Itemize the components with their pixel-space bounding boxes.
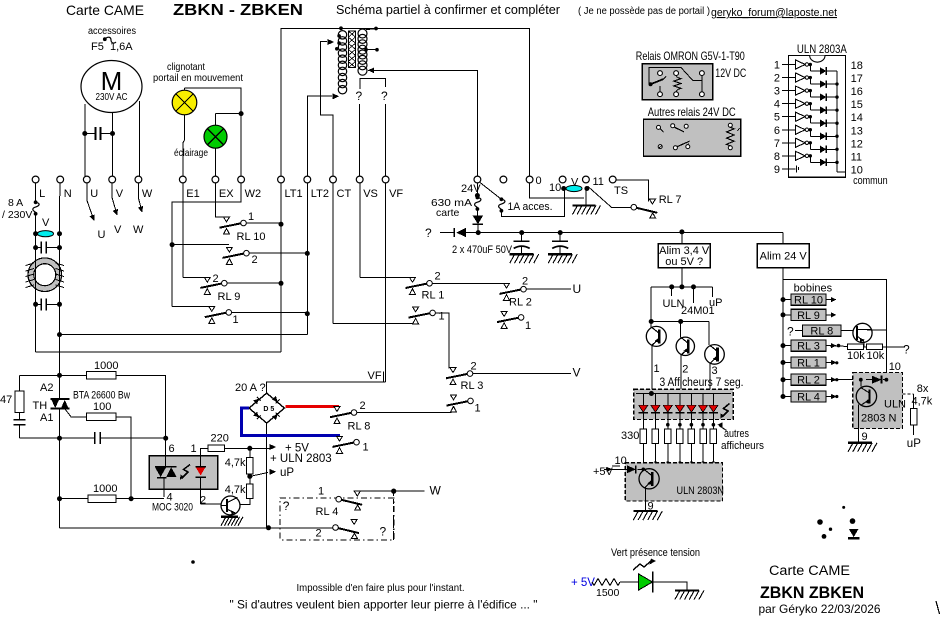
relay contact RL10-1	[220, 223, 241, 227]
svg-text:L: L	[39, 188, 45, 200]
wire resistor 4 down	[679, 444, 681, 464]
svg-text:13: 13	[851, 125, 863, 137]
wire bridge bottom to bus	[266, 423, 268, 528]
svg-text:12: 12	[851, 138, 863, 150]
terminal TS	[609, 176, 616, 183]
svg-text:2: 2	[252, 254, 258, 266]
svg-text:?: ?	[283, 499, 290, 513]
svg-text:W: W	[142, 188, 153, 200]
IC ULN 2803A outline	[788, 56, 845, 178]
svg-text:47: 47	[0, 394, 12, 406]
wire blue bridge minus	[241, 408, 340, 435]
svg-text:RL 9: RL 9	[797, 310, 820, 322]
svg-text:10: 10	[615, 455, 627, 467]
relay2 coil	[728, 123, 732, 127]
transformer primary taps	[337, 34, 341, 38]
MOC triac	[155, 466, 166, 468]
svg-text:12V DC: 12V DC	[715, 66, 746, 80]
wire resistor 5 down	[690, 444, 692, 464]
svg-text:1: 1	[654, 363, 660, 375]
LED display segment 3	[667, 394, 669, 406]
svg-text:?: ?	[903, 343, 910, 357]
svg-text:U: U	[98, 229, 106, 241]
svg-text:20 A ?: 20 A ?	[235, 382, 266, 394]
svg-text:2: 2	[682, 364, 688, 376]
relay1 pins	[658, 71, 663, 76]
varistor 10-11	[566, 185, 582, 191]
svg-text:accessoires: accessoires	[88, 26, 136, 37]
decor diode mark	[849, 529, 859, 537]
svg-text:15: 15	[851, 99, 863, 111]
relay coil RL 4	[781, 394, 786, 399]
wire Alim24V down	[782, 268, 784, 280]
stub uP	[712, 287, 714, 297]
terminal 11	[583, 176, 590, 183]
transformer core	[348, 31, 355, 68]
ULN2803A inverter 1	[788, 64, 795, 66]
wire CT to RL1-1	[332, 183, 334, 323]
svg-text:" Si d'autres veulent bien app: " Si d'autres veulent bien apporter leur…	[230, 598, 538, 612]
svg-text:RL 9: RL 9	[218, 291, 241, 303]
resistor 330 #2	[652, 429, 659, 444]
relay contact RL4-2	[333, 525, 339, 531]
svg-text:1: 1	[191, 443, 197, 455]
stub 24M01	[693, 287, 695, 303]
wire RL3-2 to V	[473, 373, 571, 375]
svg-text:0: 0	[536, 175, 542, 187]
svg-text:1: 1	[439, 311, 445, 323]
svg-text:RL 8: RL 8	[348, 421, 371, 433]
svg-text:1,6A: 1,6A	[110, 41, 133, 53]
arrow autres afficheurs	[719, 426, 727, 431]
svg-text:N: N	[64, 188, 72, 200]
wire green lamp bottom to EX	[215, 148, 217, 176]
ULN2803A inverter 6	[788, 129, 795, 131]
svg-text:2: 2	[435, 271, 441, 283]
wire LED 3 to resistor	[667, 420, 669, 430]
terminal W	[135, 176, 142, 183]
box 3 afficheurs	[634, 389, 733, 419]
relay contact RL2-1	[497, 318, 518, 322]
wire N down to triac	[59, 335, 61, 376]
terminal E1	[179, 176, 186, 183]
wire yellow lamp top to W2	[184, 88, 186, 90]
terminal L	[32, 176, 39, 183]
wire 1000 to MOC pin6 column	[116, 375, 166, 438]
resistor 330 #1	[640, 429, 647, 444]
svg-text:V: V	[571, 177, 579, 189]
svg-text:bobines: bobines	[794, 283, 833, 295]
MOC pin 4	[163, 478, 165, 498]
svg-text:portail en mouvement: portail en mouvement	[153, 72, 243, 84]
ULN2803A inverter 7	[788, 142, 795, 144]
relay contact RL2-2	[500, 290, 521, 294]
lightning arrow LED	[633, 561, 651, 570]
svg-text:V: V	[116, 188, 124, 200]
mystery winding bracket	[360, 79, 386, 89]
wire L through choke	[35, 258, 37, 300]
box relay OMRON 12V	[642, 64, 712, 100]
stub ULN	[671, 287, 673, 296]
relay coil RL 1	[781, 360, 786, 365]
resistor 330 #6	[700, 429, 707, 444]
svg-text:RL 4: RL 4	[797, 392, 820, 404]
relay contact RL10-2	[172, 244, 229, 246]
wire LED 5 to resistor	[690, 420, 692, 430]
svg-text:TH: TH	[33, 400, 48, 412]
motor M 230V AC	[81, 61, 142, 113]
wire yellow lamp bottom to E1	[184, 115, 186, 140]
svg-text:( Je ne possède pas de portail: ( Je ne possède pas de portail )	[578, 6, 710, 17]
svg-text:10: 10	[889, 361, 901, 373]
wire RL2-2 to U	[526, 288, 571, 290]
svg-text:1: 1	[525, 320, 531, 332]
svg-text:Vert présence tension: Vert présence tension	[611, 547, 700, 559]
svg-text:ou 5V ?: ou 5V ?	[665, 256, 703, 268]
svg-text:2 x 470uF 50V: 2 x 470uF 50V	[452, 244, 513, 256]
svg-text:17: 17	[851, 73, 863, 85]
wire N to LT2 rail	[59, 310, 61, 335]
terminal U	[83, 176, 90, 183]
svg-text:F5: F5	[91, 41, 104, 53]
relay contact RL8-2	[330, 413, 351, 417]
LED display segment 5	[690, 394, 692, 406]
terminal 0	[526, 176, 533, 183]
relay coil RL 10	[781, 297, 786, 302]
decor mark right edge	[936, 601, 940, 614]
resistor 330 #4	[677, 429, 684, 444]
resistor 10k right	[863, 346, 866, 348]
svg-text:?: ?	[356, 89, 363, 103]
wire RL9-1 to LT2	[232, 311, 308, 313]
wire transistor emitter ground	[230, 514, 232, 517]
svg-text:4,7k: 4,7k	[225, 484, 246, 496]
relay contact RL3-1	[447, 401, 468, 405]
svg-text:W: W	[133, 224, 144, 236]
ground ULN 2803N	[633, 510, 657, 512]
svg-text:8x: 8x	[917, 383, 929, 395]
wire RL4-1 to W	[357, 490, 424, 492]
wire EX down to RL10-1	[215, 183, 226, 217]
wire motor V	[112, 113, 114, 177]
svg-text:9: 9	[862, 431, 868, 443]
capacitor X2 L-N	[35, 300, 37, 310]
svg-text:+5V: +5V	[593, 466, 614, 478]
svg-text:RL 10: RL 10	[237, 231, 266, 243]
svg-text:?: ?	[381, 89, 388, 103]
fuse 8A	[33, 202, 39, 214]
display common line	[636, 393, 731, 395]
secondary center tap	[366, 49, 377, 51]
svg-text:2: 2	[200, 495, 206, 507]
diode 24V rail	[476, 211, 478, 216]
svg-text:geryko_forum@laposte.net: geryko_forum@laposte.net	[711, 7, 837, 19]
wire bus left down	[650, 287, 652, 322]
wire 1A fuse to 10	[501, 191, 564, 217]
svg-text:W2: W2	[245, 188, 262, 200]
terminal EX	[212, 176, 219, 183]
LED display segment 1	[642, 394, 644, 406]
ULN2803A pin9 symbol	[788, 168, 795, 170]
svg-text:1500: 1500	[596, 587, 620, 599]
IC ULN 2803N displays	[625, 463, 722, 501]
relay coil RL 3	[781, 343, 786, 348]
svg-text:100: 100	[93, 401, 111, 413]
relay coil RL 9	[781, 312, 786, 317]
svg-text:10k: 10k	[847, 350, 865, 362]
svg-text:LT2: LT2	[311, 188, 329, 200]
wire N through choke	[59, 258, 61, 300]
svg-text:10k: 10k	[867, 350, 885, 362]
svg-text:3: 3	[774, 86, 780, 98]
svg-text:4: 4	[774, 99, 780, 111]
svg-text:?: ?	[787, 325, 794, 339]
relay2 contacts	[657, 125, 661, 129]
svg-text:BTA 26600 Bw: BTA 26600 Bw	[73, 390, 130, 402]
svg-text:2: 2	[213, 273, 219, 285]
svg-text:RL 8: RL 8	[810, 326, 833, 338]
transistor display driver 1	[650, 322, 652, 328]
svg-text:Schéma partiel à confirmer et: Schéma partiel à confirmer et compléter	[336, 2, 561, 17]
svg-text:1: 1	[248, 211, 254, 223]
terminal LT2	[304, 176, 311, 183]
wire U choice arrow	[87, 183, 94, 219]
wire alim3.4 down to bus	[681, 268, 683, 287]
wire 11 to RL7	[588, 187, 631, 208]
svg-text:+ 5V: + 5V	[571, 577, 595, 589]
wire W choice arrow	[138, 183, 141, 210]
transformer secondary winding 1	[358, 29, 367, 38]
svg-text:230V AC: 230V AC	[96, 91, 128, 103]
wire LT2 to primary bottom	[307, 96, 332, 176]
svg-text:RL 3: RL 3	[797, 341, 820, 353]
relay contact RL4-1	[336, 496, 342, 502]
svg-text:par Géryko 22/03/2026: par Géryko 22/03/2026	[759, 602, 881, 616]
svg-text:V: V	[42, 217, 50, 229]
resistor 1500 zigzag	[592, 579, 620, 586]
svg-text:11: 11	[851, 151, 862, 163]
ULN2803A inverter 5	[788, 116, 795, 118]
ground 11	[573, 204, 596, 206]
box autres relais 24V	[644, 119, 741, 156]
svg-text:2: 2	[316, 528, 322, 540]
svg-text:?: ?	[425, 226, 432, 240]
svg-text:1: 1	[475, 403, 481, 415]
wire VS down	[359, 104, 361, 176]
svg-text:RL 4: RL 4	[316, 506, 339, 518]
svg-text:330: 330	[621, 430, 639, 442]
svg-text:Relais OMRON G5V-1-T90: Relais OMRON G5V-1-T90	[636, 49, 745, 63]
bridge rectifier D5	[249, 393, 284, 423]
box RL4 dashed	[280, 498, 394, 540]
svg-text:8 A: 8 A	[8, 197, 23, 209]
svg-text:éclairage: éclairage	[174, 147, 208, 159]
terminal V	[109, 176, 116, 183]
wire L to LT1 rail	[35, 310, 37, 352]
diode +5V input	[604, 468, 627, 470]
svg-text:1000: 1000	[93, 483, 117, 495]
wire 4,7k to transistor	[240, 499, 250, 505]
ULN2803A inverter 8	[788, 155, 795, 157]
MOC pin 2	[199, 477, 201, 504]
wire left vertical to bottom bus	[59, 438, 61, 528]
box Alim 24V	[782, 233, 784, 244]
wire E1 down to RL9-2	[182, 183, 184, 277]
wire resistor 6 down	[702, 444, 704, 464]
wire LED to ground	[653, 582, 687, 591]
terminal CT	[330, 176, 337, 183]
svg-text:RL 1: RL 1	[797, 358, 820, 370]
svg-text:8: 8	[774, 151, 780, 163]
ULN2803A diodes and common bus	[809, 65, 811, 72]
svg-text:V: V	[573, 366, 581, 380]
wire 11 varistor to ground	[585, 190, 587, 206]
svg-text:Carte CAME: Carte CAME	[769, 563, 850, 578]
svg-text:18: 18	[851, 60, 863, 72]
wire LT1 down	[280, 183, 282, 287]
svg-text:11: 11	[593, 176, 604, 188]
transistor display driver 3	[708, 322, 710, 346]
box Alim 3,4V ou 5V	[681, 232, 683, 244]
varistor L-N	[35, 230, 37, 238]
svg-text:ZBKN - ZBKEN: ZBKN - ZBKEN	[173, 2, 303, 19]
svg-text:LT1: LT1	[285, 188, 303, 200]
transistor ULN2803N	[642, 468, 646, 472]
wire 220 to +5V arrow	[224, 447, 272, 449]
svg-text:A2: A2	[40, 382, 53, 394]
svg-text:Alim 24 V: Alim 24 V	[760, 251, 808, 263]
transistor display driver 2	[680, 322, 682, 338]
wire ULN emitter to ground	[857, 405, 859, 443]
svg-text:1: 1	[363, 442, 369, 454]
terminal unlabeled	[500, 176, 507, 183]
wire resistor 2 down	[654, 444, 656, 464]
MOC lightning	[182, 465, 191, 479]
svg-text:RL 2: RL 2	[797, 375, 820, 387]
wire driver1 emitter	[651, 345, 653, 389]
ground LED	[675, 589, 699, 591]
IC ULN 2803 N relays	[853, 372, 903, 428]
svg-text:CT: CT	[337, 188, 352, 200]
wire resistor 7 down	[712, 444, 714, 464]
svg-text:Autres relais 24V DC: Autres relais 24V DC	[648, 105, 736, 119]
wire VF to bridge	[385, 183, 387, 382]
svg-text:Impossible d'en faire plus pou: Impossible d'en faire plus pour l'instan…	[297, 582, 465, 594]
terminal N	[57, 176, 64, 183]
svg-text:5: 5	[774, 112, 780, 124]
wire LT1 down	[280, 287, 282, 352]
wire RL8 to RL3-1	[357, 412, 452, 414]
capacitor 470uF 1	[521, 233, 523, 242]
svg-text:U: U	[573, 282, 582, 296]
svg-text:+ ULN 2803: + ULN 2803	[270, 453, 332, 465]
wire TS to RL7	[616, 180, 648, 201]
svg-text:U: U	[90, 188, 98, 200]
wire RL2 to ULN 2803 N	[826, 379, 861, 381]
svg-text:V: V	[114, 224, 122, 236]
optocoupler MOC 3020	[149, 456, 218, 490]
LED display segment 4	[679, 394, 681, 406]
wire L down	[35, 183, 37, 202]
wire VF down	[385, 104, 387, 176]
lightning arrow display	[722, 404, 730, 418]
svg-text:VF: VF	[368, 370, 382, 382]
svg-text:RL 10: RL 10	[794, 295, 823, 307]
bottom bus wire	[60, 527, 336, 529]
wire 10k to ?	[883, 346, 905, 348]
svg-text:ULN 2803N: ULN 2803N	[677, 485, 725, 497]
wire VS to RL1-2	[359, 183, 361, 277]
LED green presence	[620, 581, 639, 583]
triac gate to 100 resistor	[65, 409, 87, 417]
relay contact RL9-2	[183, 276, 207, 278]
relay contact RL9-1	[172, 306, 211, 308]
relay contact RL1-2	[406, 284, 427, 288]
svg-text:1: 1	[774, 60, 780, 72]
svg-text:4,7k: 4,7k	[225, 457, 246, 469]
svg-text:220: 220	[211, 433, 229, 445]
wire LED 2 to resistor	[654, 420, 656, 430]
svg-text:uP: uP	[280, 467, 294, 479]
wire driver2 emitter	[680, 355, 682, 394]
svg-text:4: 4	[167, 492, 173, 504]
ground MOC transistor	[221, 516, 238, 518]
svg-text:EX: EX	[219, 188, 234, 200]
wire W2 down-left	[172, 183, 241, 307]
wire LED 1 to resistor	[642, 420, 644, 430]
lamp eclairage green	[204, 125, 227, 148]
svg-text:RL 3: RL 3	[461, 380, 484, 392]
svg-text:RL 7: RL 7	[659, 194, 682, 206]
secondary bottom to 24V	[368, 68, 374, 73]
relay contact RL7	[631, 204, 637, 210]
svg-text:/ 230V: / 230V	[2, 209, 32, 221]
node dots coil rows	[835, 361, 838, 364]
terminal 10	[559, 176, 566, 183]
resistor 10k left	[837, 344, 841, 348]
diode RL2 input	[859, 378, 863, 382]
svg-text:3 Afficheurs 7 seg.: 3 Afficheurs 7 seg.	[660, 377, 744, 389]
relay contact RL8-1	[333, 443, 354, 447]
wire red bridge plus	[286, 405, 339, 408]
svg-text:RL 2: RL 2	[509, 297, 532, 309]
svg-text:1A acces.: 1A acces.	[508, 201, 553, 213]
transistor inside ULN 2803 N	[860, 380, 862, 387]
wire top rail LT1 to 0	[281, 28, 530, 176]
svg-text:?: ?	[380, 525, 387, 539]
svg-text:2: 2	[522, 276, 528, 288]
svg-text:VF: VF	[389, 188, 403, 200]
wire RL1-1 to RL3-2	[435, 313, 449, 369]
ground ULN 2803 N	[848, 442, 872, 444]
wire RL10-2 to LT2	[249, 252, 307, 254]
capacitor triac snubber	[60, 437, 95, 439]
terminal VS	[356, 176, 363, 183]
diode rail left	[440, 232, 454, 234]
svg-text:commun: commun	[853, 175, 888, 187]
wire RL10-1 to LT1	[246, 222, 281, 224]
stray mark relay2	[738, 128, 740, 131]
wire +24V rail	[466, 232, 783, 234]
ULN2803A inverter 4	[788, 103, 795, 105]
transformer secondary winding 2	[358, 50, 367, 59]
svg-text:9: 9	[774, 164, 780, 176]
svg-text:7: 7	[774, 138, 780, 150]
LED display segment 7	[712, 394, 714, 406]
wire CT to primary tap	[321, 42, 333, 177]
terminal VF	[382, 176, 389, 183]
relay coil RL 2	[781, 377, 786, 382]
